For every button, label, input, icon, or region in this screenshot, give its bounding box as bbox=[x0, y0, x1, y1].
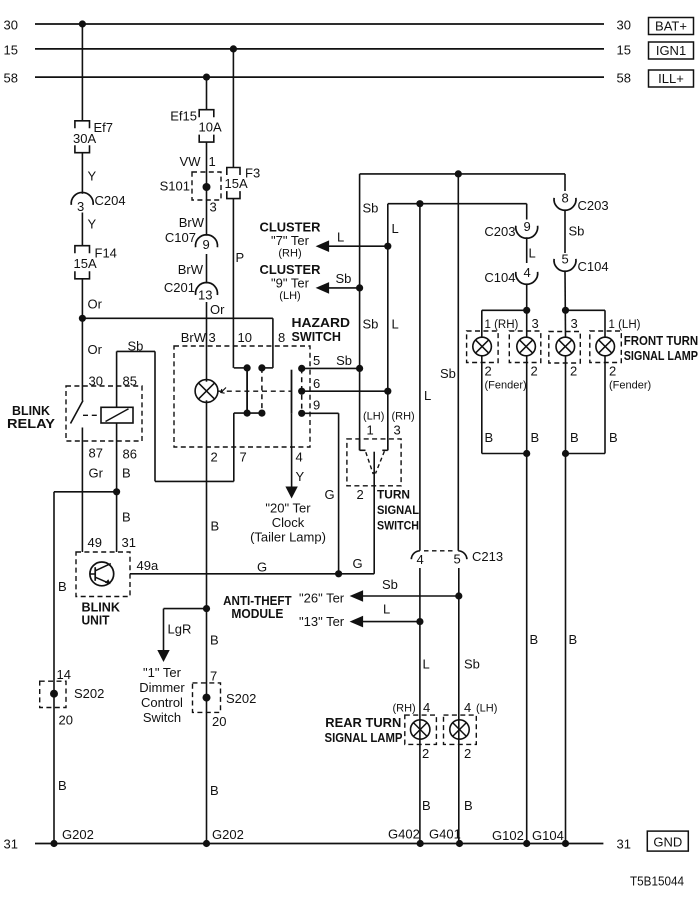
svg-text:3: 3 bbox=[394, 423, 401, 438]
svg-text:REAR TURN: REAR TURN bbox=[325, 716, 401, 730]
connector C204 bbox=[71, 192, 93, 204]
svg-text:B: B bbox=[609, 430, 618, 445]
relay switch blade bbox=[81, 386, 83, 401]
hazard contact dot a bbox=[244, 364, 251, 371]
wire 49a output bbox=[130, 573, 374, 575]
wire LH to C203-8 bbox=[564, 174, 566, 191]
svg-text:1: 1 bbox=[367, 423, 374, 438]
svg-text:Y: Y bbox=[88, 169, 97, 184]
svg-text:"13" Ter: "13" Ter bbox=[299, 614, 345, 629]
svg-text:3: 3 bbox=[209, 330, 216, 345]
svg-text:SIGNAL LAMP: SIGNAL LAMP bbox=[325, 731, 403, 745]
wire Sb horizontal to hazard pin 7 bbox=[155, 480, 234, 482]
junction bus30/Ef7 wire bbox=[79, 20, 86, 27]
svg-text:4: 4 bbox=[296, 450, 303, 465]
node Or junction bbox=[79, 315, 86, 322]
arrow to cluster 9 Ter bbox=[316, 282, 330, 294]
svg-text:L: L bbox=[392, 317, 399, 332]
wire RH to C203-9 bbox=[526, 204, 528, 220]
wire pin 9 down G bbox=[338, 413, 340, 574]
svg-text:B: B bbox=[58, 579, 67, 594]
svg-text:14: 14 bbox=[57, 667, 71, 682]
svg-text:C104: C104 bbox=[578, 259, 609, 274]
svg-text:58: 58 bbox=[617, 71, 631, 86]
svg-text:FRONT TURN: FRONT TURN bbox=[624, 334, 699, 348]
splice S202 mid box bbox=[193, 683, 221, 713]
terminal box GND bbox=[647, 831, 688, 851]
svg-text:G402: G402 bbox=[388, 827, 420, 842]
wire C213-5 lower bbox=[458, 568, 460, 844]
rear turn signal lamp LH bbox=[450, 720, 469, 739]
wire C201 to hazard pin 3 bbox=[206, 302, 208, 346]
svg-text:9: 9 bbox=[313, 398, 320, 413]
svg-text:BrW: BrW bbox=[181, 330, 207, 345]
wire LH net top horizontal bbox=[360, 173, 565, 175]
svg-text:B: B bbox=[422, 798, 431, 813]
svg-text:(Fender): (Fender) bbox=[609, 380, 651, 392]
front turn signal lamp LH fender bbox=[596, 337, 615, 356]
ground bus 31 bbox=[35, 843, 603, 845]
svg-text:L: L bbox=[529, 246, 536, 261]
svg-text:Ef15: Ef15 bbox=[170, 109, 197, 124]
svg-text:B: B bbox=[569, 632, 578, 647]
svg-text:2: 2 bbox=[422, 746, 429, 761]
svg-text:B: B bbox=[530, 632, 539, 647]
svg-text:86: 86 bbox=[123, 447, 137, 462]
svg-text:8: 8 bbox=[278, 330, 285, 345]
wire bus30 to fuse Ef7 bbox=[81, 24, 83, 121]
wire front LH branch bbox=[566, 309, 606, 311]
wire L to cluster 7 bbox=[329, 245, 388, 247]
svg-text:G: G bbox=[257, 560, 267, 575]
svg-text:UNIT: UNIT bbox=[82, 614, 110, 628]
ground G402 bbox=[417, 840, 424, 847]
wire RH net top horizontal bbox=[388, 203, 527, 205]
relay pin 87 stub bbox=[81, 428, 83, 442]
svg-text:RELAY: RELAY bbox=[7, 416, 55, 431]
svg-text:F14: F14 bbox=[95, 246, 117, 261]
svg-text:20: 20 bbox=[212, 714, 226, 729]
svg-text:(RH): (RH) bbox=[278, 248, 301, 260]
svg-text:C107: C107 bbox=[165, 230, 196, 245]
node 49a/G junction bbox=[335, 570, 342, 577]
splice S202 left box bbox=[40, 681, 66, 707]
turn signal switch box bbox=[347, 439, 401, 486]
wire Sb to anti-theft 26 bbox=[363, 595, 459, 597]
wire C107 to C201 bbox=[206, 254, 208, 284]
svg-text:L: L bbox=[423, 657, 430, 672]
svg-text:4: 4 bbox=[464, 700, 471, 715]
fuse F3 bbox=[227, 168, 240, 199]
wire LH net vertical Sb bbox=[359, 174, 361, 450]
ground G202 mid bbox=[203, 840, 210, 847]
svg-text:5: 5 bbox=[562, 252, 569, 267]
bus 58 (ILL+) bbox=[35, 76, 604, 78]
svg-text:SIGNAL LAMP: SIGNAL LAMP bbox=[624, 349, 698, 363]
svg-text:(LH): (LH) bbox=[476, 703, 497, 715]
svg-text:B: B bbox=[485, 430, 494, 445]
svg-text:(RH): (RH) bbox=[392, 411, 415, 423]
svg-text:P: P bbox=[236, 250, 245, 265]
svg-text:4: 4 bbox=[417, 552, 424, 567]
hazard contact dot c bbox=[244, 410, 251, 417]
svg-text:(Tailer Lamp): (Tailer Lamp) bbox=[250, 530, 326, 545]
wire C204 to fuse F14 bbox=[81, 213, 83, 246]
connector C203-9 bbox=[516, 226, 538, 238]
front lamp RH fender box bbox=[467, 331, 499, 363]
hazard lamp squiggle bbox=[221, 388, 226, 394]
node front LH feed junction bbox=[562, 307, 569, 314]
svg-text:2: 2 bbox=[357, 487, 364, 502]
connector C203-8 bbox=[554, 198, 576, 210]
svg-text:B: B bbox=[570, 430, 579, 445]
svg-text:IGN1: IGN1 bbox=[656, 43, 686, 58]
svg-text:"20" Ter: "20" Ter bbox=[265, 501, 311, 516]
svg-text:5: 5 bbox=[313, 353, 320, 368]
ground G401 bbox=[456, 840, 463, 847]
svg-text:2: 2 bbox=[464, 746, 471, 761]
svg-text:8: 8 bbox=[562, 191, 569, 206]
C213 dashed link bbox=[424, 550, 454, 552]
wire Or branch to hazard pin 8 bbox=[82, 317, 273, 319]
hazard contact dot 9 bbox=[298, 410, 305, 417]
svg-text:Sb: Sb bbox=[363, 201, 379, 216]
svg-text:Sb: Sb bbox=[336, 271, 352, 286]
hazard contact dot 6 bbox=[298, 388, 305, 395]
svg-text:Y: Y bbox=[296, 469, 305, 484]
wire lamp RH down bbox=[526, 356, 528, 454]
relay coil bbox=[101, 407, 133, 423]
hazard contact dot d bbox=[258, 410, 265, 417]
hazard contact dot 5 bbox=[298, 365, 305, 372]
terminal box BAT+ bbox=[649, 18, 694, 35]
svg-text:BLINK: BLINK bbox=[82, 601, 121, 615]
wire Ef7 to C204 bbox=[81, 153, 83, 194]
wire C213-4 lower bbox=[419, 568, 421, 844]
svg-text:Sb: Sb bbox=[440, 366, 456, 381]
arrow to 26 Ter bbox=[350, 590, 364, 602]
svg-text:Ef7: Ef7 bbox=[94, 120, 114, 135]
svg-text:Sb: Sb bbox=[363, 317, 379, 332]
wire lamp LH down bbox=[565, 356, 567, 454]
svg-text:C201: C201 bbox=[164, 280, 195, 295]
ground G202 left bbox=[50, 840, 57, 847]
junction bus58/Ef15 wire bbox=[203, 74, 210, 81]
wire Ef15 to S101 bbox=[206, 142, 208, 187]
wire lamp LH fender down bbox=[604, 356, 606, 454]
node front LH ground junction bbox=[562, 450, 569, 457]
svg-text:15A: 15A bbox=[74, 256, 97, 271]
bus 15 (IGN1) bbox=[35, 48, 604, 50]
front lamp LH fender box bbox=[590, 331, 622, 363]
wire pin 5 to Sb net bbox=[302, 367, 360, 369]
svg-text:SIGNAL: SIGNAL bbox=[377, 503, 419, 517]
connector C104-4 bbox=[516, 272, 538, 284]
rear lamp LH box bbox=[444, 715, 477, 744]
svg-text:B: B bbox=[464, 798, 473, 813]
svg-text:G: G bbox=[353, 556, 363, 571]
svg-text:3: 3 bbox=[532, 316, 539, 331]
svg-text:49a: 49a bbox=[137, 558, 159, 573]
svg-text:"26" Ter: "26" Ter bbox=[299, 591, 345, 606]
svg-text:"1" Ter: "1" Ter bbox=[143, 665, 182, 680]
terminal box ILL+ bbox=[649, 70, 694, 87]
hazard pin 10 internal bbox=[234, 367, 247, 369]
wire pin 4 down bbox=[291, 447, 293, 487]
svg-text:49: 49 bbox=[88, 535, 102, 550]
svg-text:C204: C204 bbox=[95, 193, 126, 208]
svg-text:L: L bbox=[424, 388, 431, 403]
svg-text:9: 9 bbox=[524, 219, 531, 234]
blink relay box bbox=[66, 386, 142, 441]
wire B to G104 bbox=[565, 454, 567, 844]
hazard pin 7 internal bbox=[234, 412, 262, 414]
node LgR junction bbox=[203, 605, 210, 612]
wire C213-5 upper bbox=[457, 174, 459, 551]
svg-text:20: 20 bbox=[59, 713, 73, 728]
svg-text:7: 7 bbox=[240, 450, 247, 465]
svg-text:S202: S202 bbox=[226, 691, 256, 706]
wire Sb to cluster 9 bbox=[329, 287, 360, 289]
wire LgR branch bbox=[164, 608, 207, 610]
hazard moving contact solid bbox=[246, 368, 248, 413]
svg-text:Sb: Sb bbox=[382, 577, 398, 592]
wire relay 87 to blink unit 49 bbox=[81, 441, 83, 552]
hazard right contact dashed bbox=[301, 368, 303, 413]
svg-text:ILL+: ILL+ bbox=[658, 71, 684, 86]
ground G104 bbox=[562, 840, 569, 847]
svg-text:(RH): (RH) bbox=[393, 703, 416, 715]
blink unit box bbox=[76, 552, 130, 597]
fuse F14 bbox=[75, 246, 90, 279]
svg-text:Sb: Sb bbox=[464, 657, 480, 672]
svg-text:13: 13 bbox=[198, 288, 212, 303]
wire pin 6 to L net bbox=[302, 390, 388, 392]
relay actuator dashed link bbox=[83, 414, 101, 416]
wire hazard pin2 to ground bbox=[206, 447, 208, 844]
svg-text:SWITCH: SWITCH bbox=[377, 519, 419, 533]
hazard lamp wire top bbox=[206, 346, 208, 382]
hazard indicator lamp bbox=[195, 380, 218, 403]
relay pin 86 wire down bbox=[116, 423, 118, 552]
svg-text:Or: Or bbox=[88, 342, 103, 357]
node RH/C213-4 junction bbox=[416, 200, 423, 207]
node LH/C213-5 junction bbox=[455, 170, 462, 177]
rear lamp RH box bbox=[405, 715, 437, 744]
svg-text:5: 5 bbox=[454, 552, 461, 567]
svg-text:"9" Ter: "9" Ter bbox=[271, 276, 310, 291]
svg-text:BrW: BrW bbox=[179, 215, 205, 230]
wire front RH branch bbox=[482, 309, 527, 311]
svg-text:G: G bbox=[325, 487, 335, 502]
wire B left vertical bbox=[53, 492, 55, 844]
wire C203-8 to C104-5 bbox=[564, 209, 566, 253]
wire junction left run bbox=[54, 491, 117, 493]
svg-text:B: B bbox=[211, 519, 220, 534]
svg-text:G102: G102 bbox=[492, 828, 524, 843]
svg-text:3: 3 bbox=[210, 200, 217, 215]
wire front LH ground branch bbox=[566, 453, 606, 455]
svg-text:"7" Ter: "7" Ter bbox=[271, 233, 310, 248]
svg-text:31: 31 bbox=[122, 535, 136, 550]
TS switch pin 3 internal bbox=[387, 439, 389, 450]
svg-text:C203: C203 bbox=[484, 224, 515, 239]
connector C213 pin 4 bbox=[411, 551, 420, 559]
svg-text:3: 3 bbox=[571, 316, 578, 331]
wire bus15 to fuse F3 bbox=[232, 49, 234, 168]
node 86/B junction bbox=[113, 488, 120, 495]
bus 30 (BAT+) bbox=[35, 23, 604, 25]
svg-text:Y: Y bbox=[88, 217, 97, 232]
svg-text:T5B15044: T5B15044 bbox=[630, 874, 684, 889]
wire Sb vertical to hazard pin 7 run bbox=[154, 351, 156, 481]
svg-text:87: 87 bbox=[89, 446, 103, 461]
svg-text:B: B bbox=[531, 430, 540, 445]
svg-text:B: B bbox=[210, 783, 219, 798]
wire Or junction to relay pin 30 bbox=[81, 318, 83, 386]
node Sb/26Ter junction bbox=[455, 592, 462, 599]
svg-text:Clock: Clock bbox=[272, 515, 305, 530]
svg-text:31: 31 bbox=[617, 837, 631, 852]
front turn signal lamp RH bbox=[517, 337, 536, 356]
node front RH ground junction bbox=[523, 450, 530, 457]
svg-text:Sb: Sb bbox=[569, 224, 585, 239]
wire lamp RH fender down bbox=[481, 356, 483, 454]
svg-text:(Fender): (Fender) bbox=[485, 380, 527, 392]
svg-text:B: B bbox=[122, 510, 131, 525]
svg-text:G104: G104 bbox=[532, 828, 564, 843]
svg-text:58: 58 bbox=[4, 71, 18, 86]
svg-text:4: 4 bbox=[423, 700, 430, 715]
svg-text:10A: 10A bbox=[199, 120, 222, 135]
svg-text:MODULE: MODULE bbox=[231, 607, 283, 621]
TS switch pin 1 internal bbox=[359, 439, 361, 450]
svg-text:(LH): (LH) bbox=[363, 411, 384, 423]
svg-text:C104: C104 bbox=[484, 270, 515, 285]
svg-text:B: B bbox=[210, 633, 219, 648]
svg-text:L: L bbox=[337, 230, 344, 245]
svg-text:4: 4 bbox=[524, 265, 531, 280]
svg-text:30: 30 bbox=[4, 18, 18, 33]
TS switch wiper bbox=[373, 452, 375, 574]
node pin6/L junction bbox=[384, 388, 391, 395]
arrow to cluster 7 Ter bbox=[316, 240, 330, 252]
svg-text:L: L bbox=[392, 221, 399, 236]
wire F14 to Or junction bbox=[81, 279, 83, 319]
wire C203-9 to C104-4 bbox=[526, 237, 528, 263]
svg-text:TURN: TURN bbox=[377, 488, 410, 502]
hazard switch box bbox=[174, 346, 310, 447]
wire C213-4 upper bbox=[419, 204, 421, 551]
svg-text:30: 30 bbox=[617, 18, 631, 33]
svg-text:LgR: LgR bbox=[168, 622, 192, 637]
svg-text:31: 31 bbox=[4, 837, 18, 852]
TS switch funnel right dashed bbox=[376, 451, 385, 473]
arrow to 13 Ter bbox=[350, 616, 364, 628]
svg-text:1 (LH): 1 (LH) bbox=[609, 319, 641, 331]
wire C104-4 to front lamps bbox=[526, 283, 528, 336]
svg-text:(LH): (LH) bbox=[279, 290, 300, 302]
svg-text:B: B bbox=[122, 466, 131, 481]
svg-text:2: 2 bbox=[485, 364, 492, 379]
svg-text:6: 6 bbox=[313, 376, 320, 391]
TS switch funnel left dashed bbox=[366, 452, 373, 474]
connector C213 pin 5 bbox=[458, 551, 467, 559]
svg-text:2: 2 bbox=[609, 364, 616, 379]
svg-text:C213: C213 bbox=[472, 549, 503, 564]
svg-text:1: 1 bbox=[209, 154, 216, 169]
splice S202 mid node bbox=[203, 694, 211, 702]
svg-text:9: 9 bbox=[203, 237, 210, 252]
svg-text:Or: Or bbox=[88, 297, 103, 312]
hazard contact dot b bbox=[258, 364, 265, 371]
hazard lamp wire bottom bbox=[206, 400, 208, 447]
svg-text:2: 2 bbox=[211, 450, 218, 465]
svg-text:15: 15 bbox=[617, 43, 631, 58]
svg-text:Sb: Sb bbox=[336, 353, 352, 368]
wire S101 to C107 bbox=[206, 187, 208, 236]
splice S101 box bbox=[192, 172, 221, 200]
svg-text:G202: G202 bbox=[62, 827, 94, 842]
transistor Q blink bbox=[90, 562, 114, 586]
node L/13Ter junction bbox=[416, 618, 423, 625]
svg-text:2: 2 bbox=[531, 364, 538, 379]
rear turn signal lamp RH bbox=[411, 720, 430, 739]
svg-text:Switch: Switch bbox=[143, 710, 181, 725]
splice S202 left node bbox=[50, 690, 58, 698]
svg-text:15A: 15A bbox=[225, 176, 248, 191]
wire C104-5 to front lamps bbox=[564, 270, 567, 336]
svg-text:7: 7 bbox=[210, 669, 217, 684]
terminal box IGN1 bbox=[649, 42, 694, 59]
wire Sb to relay pin 85 bbox=[116, 351, 118, 407]
connector C104-5 bbox=[554, 259, 576, 271]
node front RH feed junction bbox=[523, 307, 530, 314]
svg-text:L: L bbox=[383, 602, 390, 617]
wire F3 to hazard pin 10 bbox=[232, 199, 234, 368]
hazard pin 4 internal bbox=[291, 414, 293, 447]
svg-text:S202: S202 bbox=[74, 686, 104, 701]
hazard moving contact dashed bbox=[261, 368, 263, 413]
hazard actuator dashed line bbox=[218, 390, 292, 392]
wire Sb horizontal bbox=[117, 350, 155, 352]
svg-text:S101: S101 bbox=[160, 179, 190, 194]
wire L to anti-theft 13 bbox=[363, 621, 420, 623]
svg-text:B: B bbox=[58, 778, 67, 793]
svg-text:C203: C203 bbox=[578, 198, 609, 213]
front lamp RH box bbox=[509, 331, 541, 363]
svg-text:2: 2 bbox=[570, 364, 577, 379]
front lamp LH box bbox=[549, 332, 581, 364]
svg-text:15: 15 bbox=[4, 43, 18, 58]
wire front RH ground branch bbox=[482, 453, 527, 455]
hazard pin 8 internal bbox=[262, 367, 273, 369]
svg-text:BrW: BrW bbox=[178, 262, 204, 277]
svg-text:Control: Control bbox=[141, 695, 183, 710]
connector C107 bbox=[196, 235, 218, 247]
svg-text:SWITCH: SWITCH bbox=[292, 329, 342, 344]
svg-text:1 (RH): 1 (RH) bbox=[485, 319, 519, 331]
svg-text:HAZARD: HAZARD bbox=[292, 315, 351, 330]
junction bus15/F3 wire bbox=[230, 45, 237, 52]
hazard right contact bar bbox=[291, 370, 293, 414]
svg-text:Dimmer: Dimmer bbox=[139, 680, 185, 695]
svg-text:10: 10 bbox=[238, 330, 252, 345]
svg-text:BAT+: BAT+ bbox=[655, 19, 687, 34]
wire pin 9 right bbox=[302, 412, 339, 414]
splice S101 node bbox=[203, 183, 211, 191]
fuse Ef7 bbox=[75, 121, 90, 153]
